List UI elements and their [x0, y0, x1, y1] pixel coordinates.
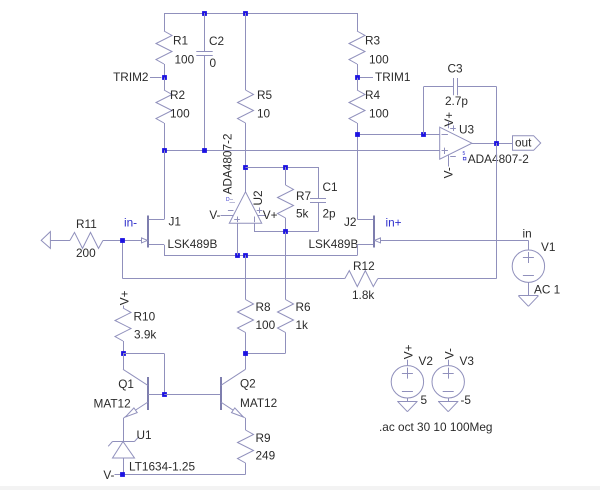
junction feedback top R5: [243, 165, 248, 170]
junction top rail C2: [202, 11, 207, 16]
wire in- down: [122, 240, 124, 278]
wire base Q1-Q2: [164, 394, 220, 396]
svg-text:Q2: Q2: [240, 377, 256, 391]
wire feedback top: [246, 167, 319, 169]
resistor R8: [245, 255, 247, 299]
junction TRIM1: [355, 75, 360, 80]
svg-text:5k: 5k: [296, 207, 309, 221]
bottom strip: [0, 486, 600, 490]
junction top rail R5: [243, 11, 248, 16]
junction C3 tap: [421, 132, 426, 137]
svg-text:U2: U2: [251, 190, 265, 205]
wire J1 source down: [164, 245, 166, 256]
svg-text:R1: R1: [173, 34, 188, 48]
transistor Q1: [147, 377, 149, 410]
capacitor C3: [423, 87, 425, 135]
svg-text:R10: R10: [134, 310, 156, 324]
svg-text:TRIM2: TRIM2: [113, 70, 148, 84]
resistor R9: [238, 430, 254, 463]
svg-text:C2: C2: [209, 34, 224, 48]
svg-text:in: in: [523, 226, 532, 240]
svg-text:100: 100: [175, 53, 195, 67]
svg-text:V1: V1: [541, 240, 555, 254]
junction R7 top: [283, 165, 288, 170]
svg-text:LSK489B: LSK489B: [168, 237, 218, 251]
svg-text:R9: R9: [256, 431, 271, 445]
svg-text:R11: R11: [76, 217, 97, 231]
resistor R10: [115, 308, 131, 341]
wire Q2 emitter: [245, 418, 247, 430]
svg-text:5: 5: [421, 393, 428, 407]
ground V2: [407, 398, 409, 401]
svg-text:100: 100: [369, 107, 389, 121]
wire out to R12: [496, 143, 498, 279]
wire U2 -in: [254, 223, 256, 231]
svg-text:R5: R5: [257, 88, 273, 102]
svg-text:100: 100: [170, 107, 190, 121]
svg-text:C1: C1: [323, 180, 338, 194]
resistor R7: [285, 167, 287, 185]
svg-text:LSK489B: LSK489B: [309, 237, 359, 251]
wire top rail: [164, 13, 357, 15]
svg-text:3.9k: 3.9k: [134, 328, 156, 342]
wire U3 inverting input: [357, 134, 440, 136]
svg-text:C3: C3: [448, 62, 464, 76]
svg-text:U1: U1: [137, 428, 152, 442]
JFET J2: [373, 216, 375, 248]
wire noninverting row: [164, 150, 440, 152]
JFET J1: [147, 216, 149, 248]
ground V1: [528, 282, 530, 295]
svg-text:LT1634-1.25: LT1634-1.25: [129, 460, 195, 474]
wire J2 source down: [357, 245, 359, 256]
svg-text:V-: V-: [103, 468, 114, 482]
svg-text:MAT12: MAT12: [240, 396, 277, 410]
svg-text:U3: U3: [459, 122, 475, 136]
svg-text:AC 1: AC 1: [534, 283, 560, 297]
voltage source V3: [432, 366, 464, 398]
port input: [41, 232, 50, 249]
svg-text:V-: V-: [209, 208, 220, 222]
svg-text:R8: R8: [256, 300, 272, 314]
junction in- node: [120, 238, 125, 243]
ground V3: [448, 398, 450, 401]
svg-text:out: out: [515, 135, 532, 149]
svg-text:-5: -5: [461, 393, 472, 407]
node TRIM1: [360, 77, 373, 79]
svg-text:100: 100: [369, 53, 389, 67]
svg-text:ADA4807-2: ADA4807-2: [468, 152, 529, 166]
junction TRIM2: [162, 75, 167, 80]
wire J2 gate to V1: [381, 240, 528, 242]
junction C2 bottom: [202, 148, 207, 153]
junction R8 top node: [243, 253, 248, 258]
capacitor C1: [318, 167, 320, 198]
svg-text:1.8k: 1.8k: [352, 288, 374, 302]
svg-text:V+: V+: [118, 290, 132, 305]
wire U3 output: [472, 143, 513, 145]
junction R10 bottom: [121, 351, 126, 356]
svg-text:J1: J1: [169, 215, 181, 229]
svg-text:10: 10: [257, 107, 271, 121]
wire R4 to J2 drain: [357, 134, 359, 220]
resistor R2: [164, 78, 166, 91]
transistor Q2: [220, 377, 222, 410]
svg-text:R12: R12: [353, 259, 375, 273]
svg-text:R3: R3: [365, 34, 381, 48]
svg-text:V+: V+: [442, 112, 456, 127]
wire bottom V- rail: [115, 474, 246, 476]
resistor R3: [357, 13, 359, 31]
svg-text:1k: 1k: [296, 318, 309, 332]
svg-text:TRIM1: TRIM1: [375, 70, 410, 84]
svg-text:0: 0: [210, 56, 217, 70]
resistor R5: [245, 13, 247, 90]
svg-text:2p: 2p: [323, 207, 337, 221]
svg-text:V2: V2: [419, 354, 433, 368]
wire R10 to base tie: [123, 353, 164, 355]
port out: [513, 136, 541, 151]
junction out node: [494, 141, 499, 146]
resistor R6: [285, 232, 287, 300]
junction base node: [162, 392, 167, 397]
svg-text:R6: R6: [296, 300, 312, 314]
wire J1 drain up: [164, 150, 166, 219]
svg-text:Q1: Q1: [118, 377, 134, 391]
wire U2 +in: [237, 223, 239, 255]
svg-text:J2: J2: [344, 215, 356, 229]
op-amp U2: [229, 192, 261, 224]
junction U2 +in node: [235, 253, 240, 258]
svg-text:R7: R7: [296, 189, 311, 203]
shunt reference U1: [123, 418, 125, 442]
svg-text:D: D: [226, 197, 230, 203]
junction Q2 collector node: [243, 351, 248, 356]
svg-text:ADA4807-2: ADA4807-2: [221, 134, 235, 195]
resistor R1: [164, 13, 166, 31]
svg-text:5: 5: [463, 151, 466, 157]
svg-text:2.7p: 2.7p: [445, 94, 468, 108]
svg-text:in+: in+: [386, 216, 402, 230]
svg-text:R2: R2: [170, 88, 185, 102]
resistor R4: [357, 78, 359, 90]
svg-text:V-: V-: [442, 348, 456, 359]
junction V- node: [120, 472, 125, 477]
junction J1 drain node: [162, 148, 167, 153]
node TRIM2: [150, 77, 161, 79]
capacitor C2: [204, 13, 206, 51]
voltage source V1: [512, 250, 544, 282]
svg-text:V-: V-: [441, 167, 455, 178]
resistor R12: [378, 278, 497, 280]
junction R4/J2 node: [355, 132, 360, 137]
wire R5 to U2 output: [245, 123, 247, 192]
svg-text:.ac oct 30 10 100Meg: .ac oct 30 10 100Meg: [379, 420, 492, 434]
voltage source V2: [391, 366, 423, 398]
svg-text:R4: R4: [365, 88, 381, 102]
svg-text:V+: V+: [263, 208, 278, 222]
svg-text:V3: V3: [460, 354, 475, 368]
svg-text:in-: in-: [124, 216, 137, 230]
op-amp U3: [440, 127, 472, 159]
svg-text:249: 249: [256, 449, 276, 463]
resistor R11: [50, 240, 70, 242]
svg-text:MAT12: MAT12: [94, 396, 131, 410]
wire source row: [164, 255, 358, 257]
svg-text:200: 200: [76, 246, 96, 260]
svg-text:V+: V+: [402, 344, 416, 359]
junction feedback bottom: [283, 229, 288, 234]
svg-text:100: 100: [256, 318, 276, 332]
